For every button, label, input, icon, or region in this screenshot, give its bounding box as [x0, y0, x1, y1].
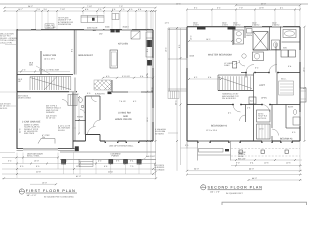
svg-text:4 1/2 x 11 7/8 ML HDR: 4 1/2 x 11 7/8 ML HDR: [39, 69, 60, 72]
svg-text:BELOW: BELOW: [238, 157, 245, 160]
svg-text:7'-10": 7'-10": [60, 8, 65, 11]
closet rect 2: [257, 124, 271, 139]
svg-text:BREAKFAST: BREAKFAST: [79, 54, 94, 57]
svg-text:KITCHEN: KITCHEN: [118, 43, 128, 46]
svg-text:IN SQUARE FEET: IN SQUARE FEET: [226, 192, 243, 195]
svg-text:W/ HGRS: W/ HGRS: [155, 132, 164, 135]
porch posts: [62, 160, 66, 164]
corner pantry: [131, 31, 140, 39]
svg-text:7'-0": 7'-0": [239, 7, 243, 10]
svg-text:W/ R-21: W/ R-21: [0, 107, 8, 110]
porch floor line: [60, 151, 156, 153]
svg-text:FIRST FLOOR PLAN: FIRST FLOOR PLAN: [26, 189, 76, 193]
right wall right plan: [299, 27, 301, 141]
porch front edge: [60, 158, 156, 160]
bottom dim garage row: [2, 157, 58, 159]
svg-text:INSUL STEEL: INSUL STEEL: [27, 154, 41, 157]
sheet lower-right frame corner: [222, 202, 307, 205]
extension line to left edge garage bottom: [0, 152, 15, 154]
garage right wall lower: [72, 141, 74, 148]
door arc bed2 closet: [240, 115, 246, 121]
living room door arc: [94, 120, 101, 127]
posts below: [239, 150, 242, 153]
svg-text:FIRE TAPE: FIRE TAPE: [24, 132, 35, 135]
top wall left plan: [17, 29, 154, 31]
svg-text:CSMT: CSMT: [193, 24, 199, 27]
svg-text:7'-0": 7'-0": [119, 5, 123, 8]
door arc bed3: [272, 129, 279, 136]
hall wall stub: [245, 73, 247, 78]
svg-text:2 CAR GARAGE: 2 CAR GARAGE: [22, 120, 41, 123]
svg-text:BEDROOM #2: BEDROOM #2: [211, 125, 228, 128]
title second floor plan: [201, 185, 263, 195]
bottom dim line 3: [2, 168, 156, 170]
powder door arc: [80, 110, 86, 116]
svg-text:OVER LIVING: OVER LIVING: [18, 97, 31, 100]
svg-text:CSMT: CSMT: [222, 24, 228, 27]
long dim right plan: [187, 170, 302, 172]
interior dim near stairs: [189, 78, 221, 80]
front door swing: [88, 127, 96, 135]
interior wall dining: [40, 51, 42, 75]
garage door swing from hall: [62, 100, 68, 106]
deck grill block: [92, 18, 95, 21]
slider door top wall: [84, 29, 103, 31]
family/breakfast divider wall: [73, 30, 75, 75]
svg-text:12'-0 x 13'-6: 12'-0 x 13'-6: [206, 129, 218, 132]
dim line row2 left plan: [4, 10, 156, 12]
interior dim line kitchen: [103, 77, 153, 79]
porch roof dashed lines below bottom wall: [231, 149, 300, 157]
right vertical dim lines left plan: [146, 11, 148, 157]
porch extension lines: [64, 159, 140, 174]
svg-text:45'-4": 45'-4": [261, 2, 266, 5]
svg-text:DN 16 RISERS: DN 16 RISERS: [222, 97, 236, 100]
svg-text:PORCH: PORCH: [112, 155, 120, 158]
extension lines top left plan: [17, 11, 153, 30]
svg-text:U.N.O. (TYP): U.N.O. (TYP): [0, 41, 12, 44]
bottom long dim: [2, 173, 156, 175]
extension line to left edge at top wall: [0, 29, 17, 31]
bath walls: [232, 27, 234, 45]
svg-text:5'-10 1/2: 5'-10 1/2: [122, 75, 131, 78]
linen closet box left: [233, 62, 237, 69]
left wall right plan: [186, 27, 188, 141]
crosshatched pantry area: [94, 80, 111, 90]
svg-text:16'-0": 16'-0": [42, 181, 47, 184]
shower with X: [253, 32, 268, 51]
svg-text:IN SQUARE FEET LIVING AREA: IN SQUARE FEET LIVING AREA: [44, 195, 74, 198]
dim line left segment right plan: [187, 9, 232, 11]
deck stair down: [168, 91, 179, 99]
extra dim row right plan: [187, 174, 302, 176]
dim line row1 left plan: [4, 7, 156, 9]
chimney box: [112, 14, 119, 20]
dim line row2 right plan: [232, 9, 300, 11]
svg-text:MASTER BEDROOM: MASTER BEDROOM: [208, 54, 232, 57]
porch steps: [79, 159, 93, 166]
jamb marks bedroom doors: [232, 104, 234, 105]
svg-text:BATH: BATH: [288, 106, 294, 109]
small sink left: [242, 54, 246, 58]
svg-text:14'-4 x 18'-0: 14'-4 x 18'-0: [44, 58, 56, 61]
top wall right plan: [187, 26, 300, 28]
right wall left plan: [152, 30, 154, 141]
svg-text:5080 SLDR: 5080 SLDR: [87, 26, 98, 29]
dark window headers left portion: [197, 27, 206, 30]
porch post at garage corner: [75, 146, 79, 151]
foyer closet arc: [91, 96, 97, 102]
windows top: [233, 26, 283, 28]
water closet: [272, 40, 280, 50]
deck at left of second floor: [168, 28, 187, 91]
window top wall 1: [18, 29, 41, 31]
window sill jambs front wall: [105, 142, 106, 143]
svg-text:41'-0": 41'-0": [76, 175, 81, 178]
svg-text:1/4" = 1'-0": 1/4" = 1'-0": [210, 191, 220, 194]
planter box below wall: [199, 149, 224, 153]
svg-text:DW: DW: [99, 33, 102, 36]
garage entry steps: [69, 91, 76, 93]
kitchen cabinets right: [146, 32, 153, 57]
svg-text:FLUSH: FLUSH: [58, 129, 65, 132]
front windows: [105, 140, 139, 142]
svg-text:ABV: ABV: [29, 64, 34, 67]
second appliance dark: [147, 60, 152, 66]
foyer vertical dim: [78, 97, 80, 134]
door arcs hall: [246, 65, 254, 73]
dark block right of planter: [225, 149, 229, 151]
powder fixtures: [79, 98, 83, 103]
svg-text:AT 16" OC: AT 16" OC: [46, 117, 56, 120]
svg-text:CANT ABV: CANT ABV: [46, 26, 57, 29]
dim ticks row1: [4, 7, 157, 9]
dim ticks row2: [4, 10, 157, 12]
interior dim master: [189, 40, 232, 42]
svg-text:3046-2: 3046-2: [123, 26, 130, 29]
svg-text:TO GRADE: TO GRADE: [154, 168, 165, 171]
svg-text:HOME OFFICE: HOME OFFICE: [115, 118, 133, 121]
garage extension lines to dims: [17, 152, 74, 178]
dark window headers kitchen: [111, 29, 115, 32]
attic access box: [249, 97, 256, 104]
window top wall 3: [122, 29, 132, 31]
right plan bottom dims: [231, 159, 302, 161]
sheet top border: [0, 3, 308, 5]
extension line to left edge at garage wall: [0, 91, 17, 93]
left vertical dims right plan: [176, 28, 178, 171]
svg-text:10'-6": 10'-6": [259, 7, 264, 10]
vanity tall with two sinks: [234, 30, 244, 44]
svg-text:7'-4 1/2: 7'-4 1/2: [119, 100, 126, 103]
tub: [283, 30, 296, 38]
kitchen island: [110, 50, 118, 68]
window right wall: [152, 58, 154, 68]
wic right: [276, 73, 278, 105]
label box cantilever: [45, 24, 54, 28]
living rm north wall: [112, 91, 128, 93]
svg-text:W/D: W/D: [283, 47, 287, 50]
bottom overall dim: [2, 177, 157, 179]
title first floor plan: [19, 189, 77, 199]
svg-text:16'-0": 16'-0": [34, 160, 39, 163]
door arcs bedrooms: [233, 105, 241, 113]
extension lines top right plan: [187, 6, 300, 26]
rear deck left plan: [81, 16, 104, 23]
svg-text:34'-2": 34'-2": [28, 5, 33, 8]
svg-text:W.I.C.: W.I.C.: [281, 78, 287, 81]
left wall left plan (house+garage): [16, 30, 18, 149]
svg-text:OPEN: OPEN: [261, 97, 267, 100]
center walls bottom: [245, 105, 247, 123]
svg-text:B.PANTRY: B.PANTRY: [95, 93, 105, 96]
slider center jamb: [93, 29, 96, 31]
svg-text:SECOND FLOOR PLAN: SECOND FLOOR PLAN: [208, 186, 263, 190]
overall dim row right plan: [249, 179, 303, 181]
svg-text:FOUNDATION: FOUNDATION: [58, 23, 72, 26]
svg-text:LINEN: LINEN: [246, 34, 252, 37]
svg-text:10'-0": 10'-0": [76, 165, 81, 168]
svg-text:44'-0": 44'-0": [252, 177, 257, 180]
svg-text:FAMILY RM: FAMILY RM: [43, 54, 56, 57]
roof below rect bottom-left: [187, 141, 300, 171]
bottom dim line 2: [2, 163, 156, 165]
svg-text:PWDR: PWDR: [77, 116, 84, 119]
hall wall mid: [241, 72, 246, 74]
stairs second floor: [218, 76, 252, 90]
dim line row1 right plan: [236, 4, 300, 6]
window top wall 2: [105, 29, 111, 31]
svg-text:ACCESS: ACCESS: [258, 117, 267, 120]
stairwell walls: [218, 74, 254, 76]
right vertical dim right plan: [304, 27, 306, 141]
svg-text:44'-0": 44'-0": [249, 167, 254, 170]
svg-text:CABS: CABS: [224, 64, 230, 67]
garage top wall: [17, 91, 77, 93]
toilet below shower: [253, 52, 264, 61]
svg-text:20'-4": 20'-4": [108, 170, 113, 173]
garage bottom wall double: [17, 147, 75, 149]
front wall right segment: [100, 140, 153, 142]
pantry blocks: [108, 92, 112, 95]
svg-text:LINE OF EXTERIOR WALL: LINE OF EXTERIOR WALL: [109, 145, 134, 148]
laundry boxes: [281, 50, 288, 57]
foyer walls: [85, 96, 87, 135]
range appliance dark: [147, 40, 153, 47]
powder room bottom wall: [75, 120, 86, 122]
stair hall dim line: [16, 71, 70, 73]
bay bump right side: [300, 88, 306, 102]
svg-text:34'-0": 34'-0": [194, 167, 199, 170]
garage door opening: [23, 148, 58, 151]
svg-text:7'-10": 7'-10": [87, 5, 92, 8]
linen boxes: [247, 29, 253, 34]
entry recess walls: [86, 134, 101, 136]
wall above stairs: [17, 74, 73, 76]
bottom wall right plan: [187, 140, 300, 142]
svg-text:20'-8": 20'-8": [36, 170, 41, 173]
stairs first floor: [30, 77, 71, 91]
bedroom separation wall: [187, 104, 233, 106]
svg-text:8'-0": 8'-0": [236, 162, 240, 165]
garage right wall double: [72, 92, 74, 141]
svg-text:GARAGE: GARAGE: [46, 111, 55, 114]
step bump garage rear: [38, 139, 55, 144]
front wall main left segment: [73, 140, 86, 142]
svg-text:1/4" = 1'-0": 1/4" = 1'-0": [27, 194, 37, 197]
jamb marks hall doors: [245, 72, 247, 73]
closet rect 1: [257, 110, 271, 122]
bottom wall jamb marks: [197, 142, 293, 143]
svg-text:16'-7": 16'-7": [18, 8, 23, 11]
svg-text:BEDRM #3: BEDRM #3: [280, 138, 293, 141]
svg-text:LOFT: LOFT: [259, 84, 265, 87]
